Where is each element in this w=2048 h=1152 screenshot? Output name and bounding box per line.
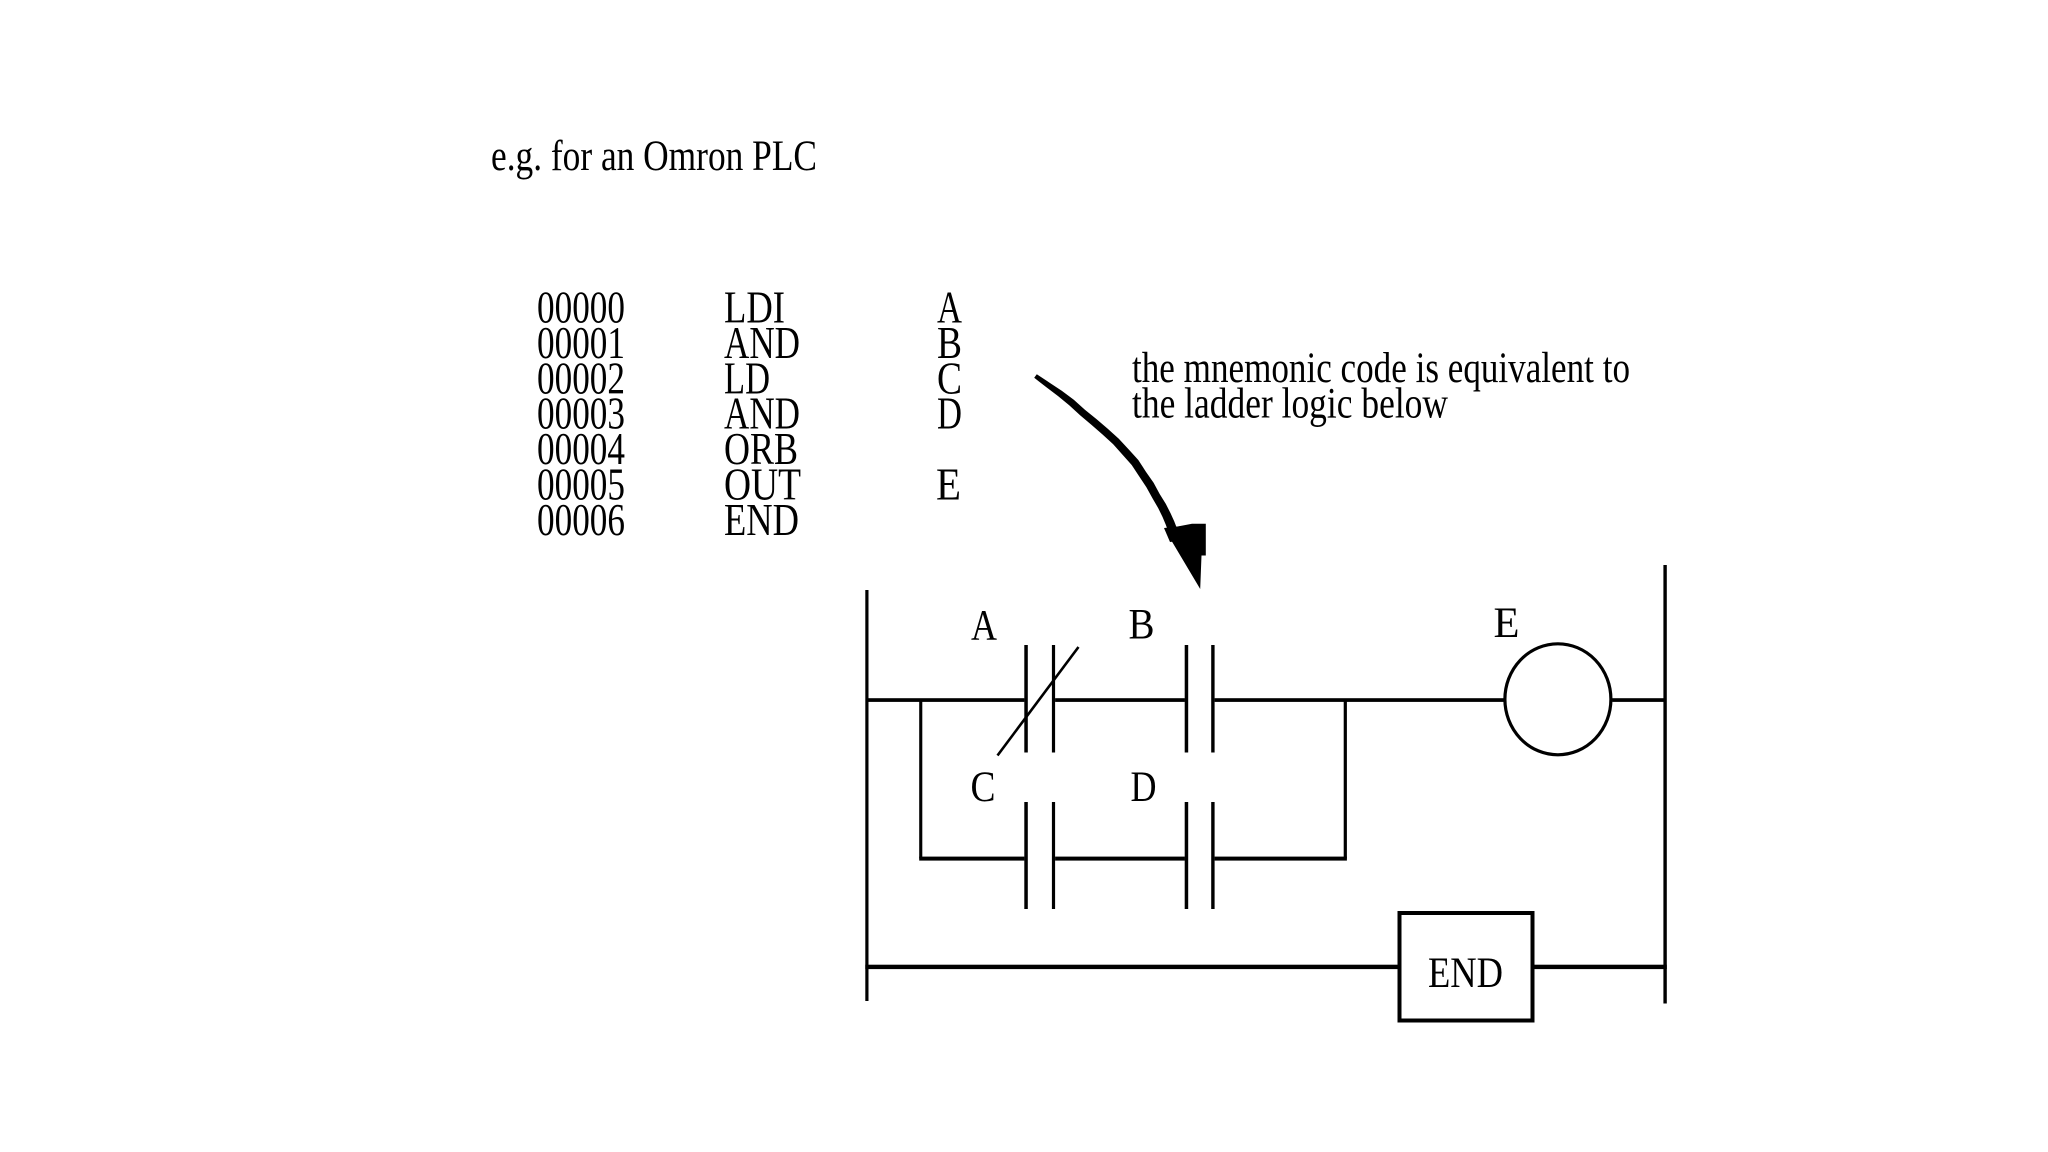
svg-text:D: D bbox=[937, 388, 962, 439]
svg-text:A: A bbox=[971, 603, 997, 650]
svg-text:e.g. for an Omron PLC: e.g. for an Omron PLC bbox=[491, 133, 817, 180]
svg-text:B: B bbox=[1129, 602, 1155, 649]
svg-text:the ladder logic below: the ladder logic below bbox=[1132, 381, 1448, 428]
svg-text:END: END bbox=[1428, 950, 1503, 997]
svg-text:D: D bbox=[1131, 764, 1157, 811]
svg-text:C: C bbox=[971, 764, 996, 811]
svg-text:E: E bbox=[1494, 600, 1520, 647]
svg-text:E: E bbox=[936, 459, 961, 510]
svg-text:END: END bbox=[724, 494, 799, 545]
svg-text:00006: 00006 bbox=[537, 494, 625, 545]
